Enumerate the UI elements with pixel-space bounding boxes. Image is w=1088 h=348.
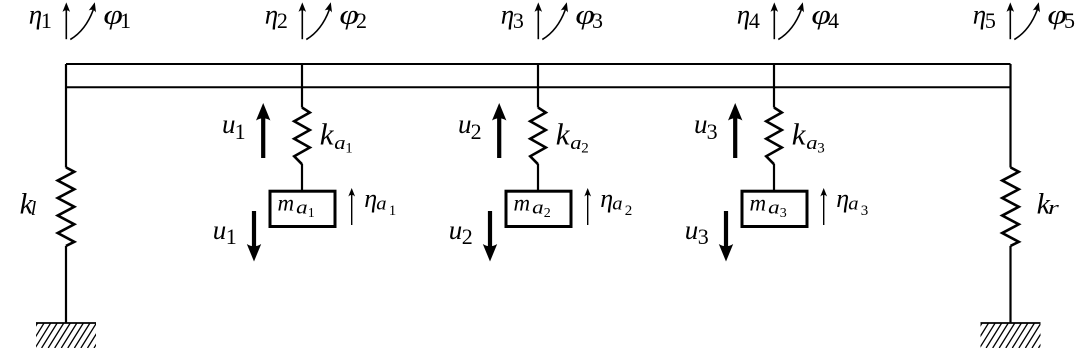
label u_3 down — [685, 215, 709, 249]
arrow eta_a3 (absorber DOF) — [823, 194, 825, 225]
label phi_1 — [103, 0, 131, 33]
svg-text:η: η — [600, 184, 613, 213]
label k_a1 — [320, 117, 353, 157]
ground right — [981, 322, 1041, 324]
label u_3 up — [694, 109, 718, 144]
arrow eta_1 (vertical DOF node 1) — [65, 9, 67, 39]
svg-text:m: m — [750, 191, 767, 216]
svg-text:k: k — [320, 117, 335, 152]
wire left support upper — [65, 64, 67, 168]
svg-text:1: 1 — [235, 119, 246, 144]
wire node to spring k_a1 — [301, 64, 303, 108]
svg-text:1: 1 — [345, 141, 353, 157]
svg-text:3: 3 — [817, 141, 825, 157]
label phi_3 — [575, 0, 603, 33]
wire node to spring k_a3 — [773, 64, 775, 108]
label k_a3 — [792, 117, 825, 157]
arrow u_1 down (reaction force) — [252, 211, 256, 248]
wire right support upper — [1009, 64, 1011, 168]
arrow u_3 down (reaction force) — [724, 211, 728, 248]
svg-text:5: 5 — [985, 8, 996, 33]
arrow eta_5 (vertical DOF node 5) — [1009, 9, 1011, 39]
label k_a2 — [556, 117, 589, 157]
svg-text:m: m — [278, 191, 295, 216]
svg-text:1: 1 — [308, 206, 315, 221]
arrow phi_3 (rotation DOF node 3) — [542, 10, 565, 40]
label eta_a1 — [364, 184, 396, 219]
arrow u_2 down (reaction force) — [488, 211, 492, 248]
svg-text:2: 2 — [544, 206, 551, 221]
arrow eta_a1 (absorber DOF) — [351, 194, 353, 225]
svg-text:a: a — [334, 133, 345, 154]
label k_l — [20, 188, 37, 221]
label phi_5 — [1047, 0, 1075, 33]
wire left support lower — [65, 246, 67, 323]
svg-text:u: u — [213, 215, 227, 245]
wire node to spring k_a2 — [537, 64, 539, 108]
label eta_a2 — [600, 184, 632, 219]
arrow phi_5 (rotation DOF node 5) — [1014, 10, 1037, 40]
wire spring k_a1 to mass — [301, 164, 303, 191]
arrow phi_4 (rotation DOF node 4) — [778, 10, 801, 40]
svg-text:r: r — [1048, 198, 1060, 219]
svg-text:k: k — [792, 117, 807, 152]
svg-text:m: m — [514, 191, 531, 216]
svg-text:a: a — [612, 194, 622, 215]
svg-text:l: l — [31, 198, 37, 220]
svg-text:5: 5 — [1064, 8, 1075, 33]
svg-text:1: 1 — [389, 203, 397, 219]
arrow u_1 up (control force) — [261, 117, 265, 158]
label m_a1 — [278, 191, 315, 222]
svg-text:a: a — [806, 133, 817, 154]
svg-text:2: 2 — [625, 203, 633, 219]
svg-text:u: u — [458, 109, 472, 139]
svg-text:a: a — [768, 197, 780, 218]
arrow eta_2 (vertical DOF node 2) — [301, 9, 303, 39]
svg-text:3: 3 — [780, 206, 787, 221]
label phi_2 — [339, 0, 367, 33]
svg-text:η: η — [836, 184, 849, 213]
svg-text:a: a — [376, 194, 386, 215]
svg-text:2: 2 — [277, 8, 288, 33]
label eta_2 — [265, 0, 288, 33]
svg-text:u: u — [222, 109, 236, 139]
spring k_a2 — [530, 108, 546, 165]
svg-text:η: η — [364, 184, 377, 213]
svg-text:2: 2 — [462, 224, 473, 249]
svg-text:a: a — [848, 194, 858, 215]
spring k_l — [58, 167, 75, 246]
svg-text:4: 4 — [828, 8, 839, 33]
ground left — [36, 322, 96, 324]
svg-text:u: u — [694, 109, 708, 139]
label m_a3 — [750, 191, 787, 222]
svg-text:a: a — [570, 133, 581, 154]
label k_r — [1037, 188, 1060, 221]
label u_1 down — [213, 215, 237, 249]
mass m_a3 box — [742, 191, 807, 226]
arrow eta_a2 (absorber DOF) — [587, 194, 589, 225]
wire spring k_a3 to mass — [773, 164, 775, 191]
arrow phi_1 (rotation DOF node 1) — [70, 10, 93, 40]
svg-text:2: 2 — [356, 8, 367, 33]
svg-text:3: 3 — [592, 8, 603, 33]
mass m_a1 box — [270, 191, 335, 226]
label m_a2 — [514, 191, 551, 222]
svg-text:3: 3 — [707, 119, 718, 144]
label eta_5 — [973, 0, 996, 33]
svg-text:3: 3 — [698, 224, 709, 249]
arrow eta_4 (vertical DOF node 4) — [773, 9, 775, 39]
svg-text:1: 1 — [226, 224, 237, 249]
label eta_3 — [501, 0, 524, 33]
arrow phi_2 (rotation DOF node 2) — [306, 10, 329, 40]
spring k_a1 — [294, 108, 310, 165]
label u_2 down — [449, 215, 473, 249]
arrow eta_3 (vertical DOF node 3) — [537, 9, 539, 39]
spring k_r — [1002, 167, 1019, 246]
svg-text:3: 3 — [513, 8, 524, 33]
label eta_4 — [737, 0, 760, 33]
mass m_a2 box — [506, 191, 571, 226]
label phi_4 — [811, 0, 839, 33]
svg-text:a: a — [532, 197, 544, 218]
svg-text:k: k — [556, 117, 571, 152]
svg-text:1: 1 — [41, 8, 52, 33]
wire right support lower — [1009, 246, 1011, 323]
spring k_a3 — [766, 108, 782, 165]
label eta_a3 — [836, 184, 868, 219]
arrow u_2 up (control force) — [497, 117, 501, 158]
svg-text:1: 1 — [120, 8, 131, 33]
svg-text:2: 2 — [581, 141, 589, 157]
beam bottom line — [66, 86, 1011, 88]
label u_1 up — [222, 109, 246, 144]
svg-text:3: 3 — [861, 203, 869, 219]
beam top line — [66, 63, 1011, 65]
label u_2 up — [458, 109, 482, 144]
svg-text:a: a — [296, 197, 308, 218]
label eta_1 — [29, 0, 52, 33]
arrow u_3 up (control force) — [733, 117, 737, 158]
svg-text:4: 4 — [749, 8, 760, 33]
svg-text:u: u — [449, 215, 463, 245]
svg-text:u: u — [685, 215, 699, 245]
svg-text:2: 2 — [471, 119, 482, 144]
wire spring k_a2 to mass — [537, 164, 539, 191]
